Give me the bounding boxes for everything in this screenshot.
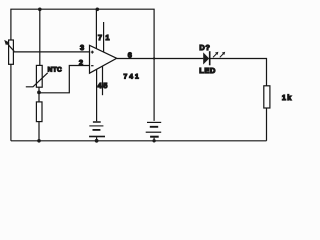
wire wiper to op-amp pin3 xyxy=(14,51,90,53)
wire battery B2 to ground rail xyxy=(153,138,155,141)
battery B2 plate long thin xyxy=(147,121,161,123)
wire LED cathode to right corner down to R2 xyxy=(211,59,267,86)
svg-text:741: 741 xyxy=(124,73,141,80)
wire bottom ground rail xyxy=(11,140,267,142)
wire R2 bottom to ground rail xyxy=(266,108,268,141)
wire top supply rail with left and right drops xyxy=(11,9,154,121)
LED D? triangle xyxy=(203,52,209,64)
svg-text:5: 5 xyxy=(103,81,107,90)
svg-text:NTC: NTC xyxy=(48,66,63,73)
svg-text:7: 7 xyxy=(98,33,102,42)
battery B1 plate long thin xyxy=(89,125,103,127)
LED D? cathode bar xyxy=(209,51,211,65)
pin 1 stub xyxy=(103,22,105,52)
wire battery B1 to ground rail xyxy=(96,137,98,141)
svg-text:D?: D? xyxy=(199,43,210,52)
node junction dot rail/pin7 branch xyxy=(96,8,100,12)
battery B1 plate short thick xyxy=(93,121,101,123)
battery B2 plate short thick xyxy=(150,136,159,138)
battery B1 plate short thick xyxy=(93,129,101,131)
pin 4 wire down to battery B1 xyxy=(96,70,98,122)
thermistor NTC body xyxy=(36,65,42,87)
op-amp minus input mark xyxy=(91,65,93,67)
potentiometer P1 body xyxy=(9,40,14,64)
pin 5 stub xyxy=(102,66,104,95)
LED light arrow 1 xyxy=(213,54,216,57)
wire op-amp output to LED anode xyxy=(117,58,204,60)
battery B1 plate long thick xyxy=(89,136,105,138)
node junction dot NTC/R1/pin2 xyxy=(37,91,41,95)
wire R1 bottom to ground rail xyxy=(38,122,40,141)
svg-text:2: 2 xyxy=(79,58,83,67)
potentiometer P1 wiper arrowhead xyxy=(4,40,9,45)
wire top rail down to NTC xyxy=(39,9,41,65)
resistor R1 body xyxy=(36,102,42,122)
resistor R2 1k body xyxy=(264,86,270,108)
battery B2 plate short thick xyxy=(150,126,158,128)
node crossing bump output/supply wire xyxy=(153,57,155,59)
svg-text:1: 1 xyxy=(105,33,109,42)
svg-text:LED: LED xyxy=(199,66,216,75)
node junction dot rail/NTC branch xyxy=(38,8,42,12)
op-amp U1 741 triangle xyxy=(90,45,117,73)
svg-text:1k: 1k xyxy=(282,93,293,102)
pin 7 wire from rail xyxy=(95,9,97,48)
LED light arrow 2 xyxy=(220,54,223,57)
node junction dot battery B2/rail xyxy=(152,139,155,142)
wire NTC bottom to junction xyxy=(38,87,40,102)
wire pot bottom to ground rail xyxy=(10,64,12,141)
battery B2 plate long thin xyxy=(146,131,162,133)
wire junction to op-amp pin2 xyxy=(39,66,90,93)
op-amp plus input mark xyxy=(91,51,94,54)
node junction dot R1/ground rail xyxy=(37,139,41,143)
node junction dot battery B1/rail xyxy=(95,139,99,143)
thermistor NTC slash symbol with foot xyxy=(26,73,48,87)
potentiometer P1 wiper arrow shaft xyxy=(7,43,14,51)
svg-text:3: 3 xyxy=(80,43,84,52)
